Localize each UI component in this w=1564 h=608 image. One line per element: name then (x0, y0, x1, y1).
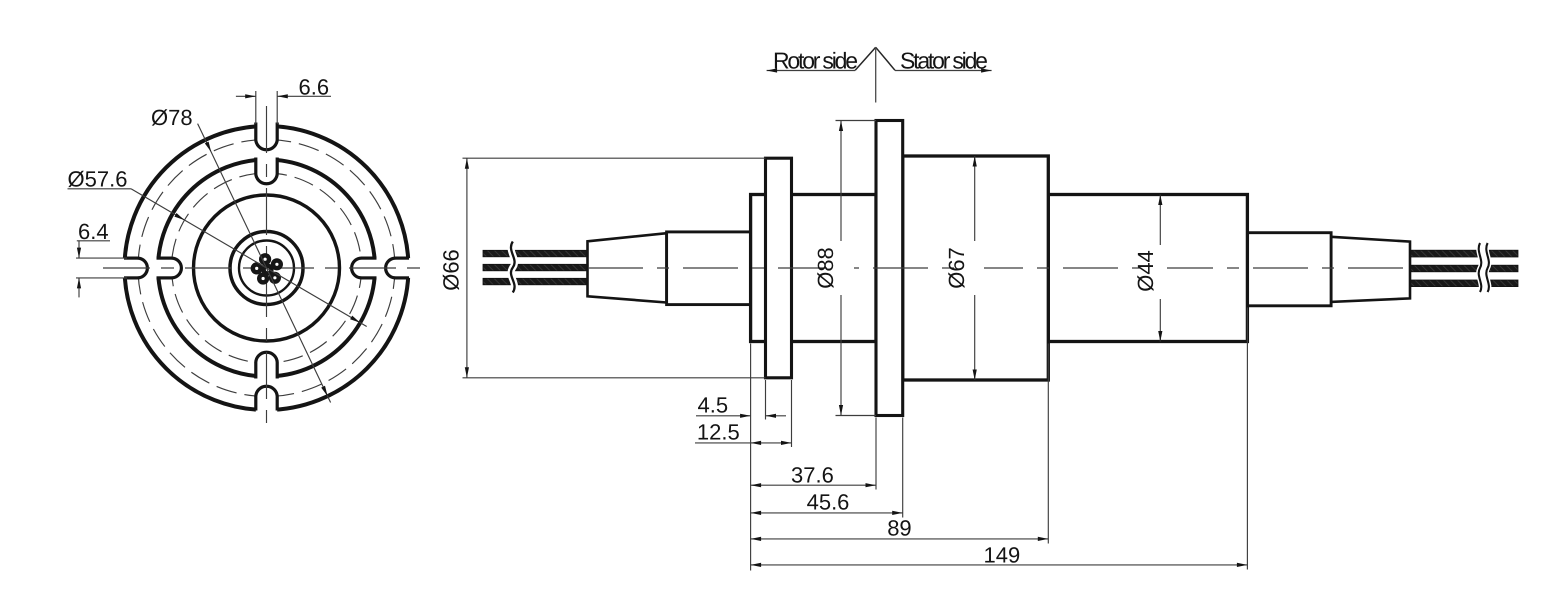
side view: dimension D88 line (840, 121, 842, 416)
side view: horizontal centerline (588, 267, 1409, 269)
front view: west slot (6.4 wide) (124, 257, 138, 260)
side view: stator lead wires (3 black cables) (1405, 250, 1518, 257)
side view: dimension D66 extension lines (463, 157, 766, 159)
front view: slot cut-out masks (256, 106, 278, 139)
dimension 45.6 lines (751, 512, 903, 514)
front view: dimension line D57.6 (131, 189, 367, 327)
svg-text:Ø88: Ø88 (813, 247, 838, 289)
dimension 149 lines (751, 564, 1248, 566)
front view: dashed pitch circle D57.6 (172, 173, 362, 363)
svg-text:6.6: 6.6 (299, 75, 330, 100)
svg-text:45.6: 45.6 (807, 490, 850, 515)
extension line at hub left face (x=750.6) (750, 344, 752, 571)
front view: wire-bore circle outer (230, 232, 303, 305)
front view: horizontal centerline (103, 267, 430, 269)
front view: dimension line D78 (198, 124, 331, 403)
svg-text:Ø57.6: Ø57.6 (68, 167, 128, 192)
extension line at D67/D44 step (x=1048.3) (1047, 344, 1049, 544)
svg-text:4.5: 4.5 (698, 393, 729, 418)
front view: vertical centerline (266, 106, 268, 432)
front view: east slot (396, 257, 410, 260)
extension line at rotor flange left (x=765.5) (765, 380, 767, 420)
svg-text:89: 89 (887, 516, 911, 541)
side view: stator body cylinder D44 (1048, 195, 1247, 342)
side view: main housing cylinder D67 (903, 156, 1049, 380)
side view: dimension D67 line (974, 156, 976, 380)
dimension 89 lines (751, 538, 1049, 540)
extension line at rotor flange right (x=791.5) (791, 380, 793, 447)
front view: dashed pitch circle D78 (138, 140, 395, 397)
side view: dimension D44 line (1159, 195, 1161, 342)
extension line at stator end (x=1247.4) (1246, 308, 1248, 570)
front view: north slot (6.6 wide) (254, 123, 257, 140)
extension line at mounting flange left (x=876) (875, 418, 877, 490)
side view: dimension text D88 background (827, 241, 854, 295)
front view: dimension 6.6 arrows/lines (255, 91, 257, 124)
front view: south slot (254, 397, 257, 411)
side view: mounting flange D88 (876, 121, 903, 416)
side view: stator cable break symbol (1480, 243, 1488, 291)
rotor side arrow line (767, 70, 856, 72)
svg-text:Ø67: Ø67 (944, 247, 969, 289)
svg-text:6.4: 6.4 (78, 219, 109, 244)
side view: stator cable boot (taper) (1331, 237, 1410, 302)
dimension 12.5 lines (695, 442, 792, 444)
front view: wire-bore circle inner (239, 241, 294, 296)
svg-text:Ø44: Ø44 (1133, 250, 1158, 292)
svg-text:Ø66: Ø66 (439, 249, 464, 291)
side view: dimension text D67 background (957, 241, 984, 295)
svg-text:12.5: 12.5 (697, 420, 740, 445)
svg-text:Rotor side: Rotor side (773, 48, 857, 74)
dimension 37.6 lines (751, 484, 876, 486)
svg-text:37.6: 37.6 (791, 462, 834, 487)
side view: dimension D66 line (466, 158, 468, 378)
side view: rotor neck cylinder (667, 232, 751, 305)
stator side arrow line (895, 70, 992, 72)
dimension 4.5 lines (696, 415, 751, 417)
svg-text:Stator side: Stator side (900, 48, 987, 74)
divider symbol apex lines (855, 47, 876, 70)
side view: dimension text D44 background (1140, 245, 1167, 299)
front view: wire bundle (6 conductors) (259, 253, 271, 265)
side view: stator neck cylinder (1247, 233, 1331, 306)
svg-text:Ø78: Ø78 (151, 105, 193, 130)
front view: inner boss circle (194, 195, 340, 341)
side view: rotor flange D66 (766, 158, 792, 378)
extension line at mounting flange right (x=902.7) (902, 418, 904, 518)
side view: dimension D88 extension lines (836, 120, 877, 122)
front view: middle flange circle (158, 160, 375, 377)
side view: rotor lead wires (3 black cables) (483, 250, 589, 256)
front view: outer flange circle (125, 126, 409, 410)
svg-text:149: 149 (984, 543, 1021, 568)
front view: dimension 6.4 arrows/lines (76, 257, 127, 259)
side view: rotor cable boot (taper) (588, 233, 667, 302)
side view: rotor cable break symbol (511, 242, 515, 293)
divider vertical line (875, 47, 877, 102)
side view: hub between flanges (751, 195, 876, 342)
